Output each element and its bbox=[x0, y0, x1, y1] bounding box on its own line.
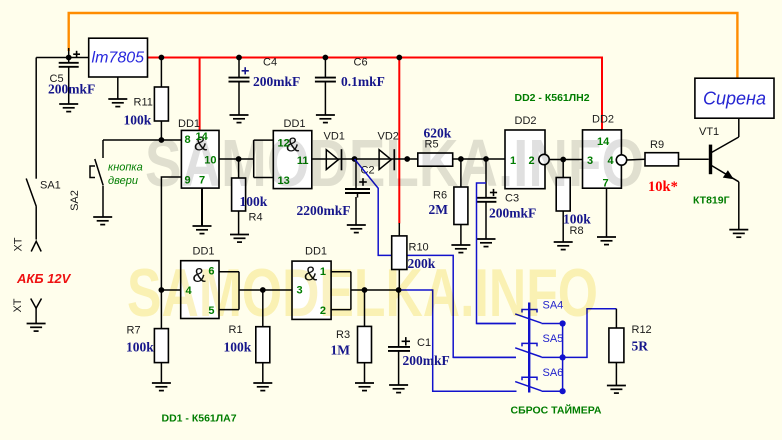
value R3 1M bbox=[331, 343, 351, 358]
regulator U1 lm7805 box bbox=[89, 38, 148, 77]
switch SA5 reset button bbox=[453, 343, 562, 357]
wire SA2 row to DD1 pin8 bbox=[103, 139, 181, 141]
wire regulator ground lead bbox=[117, 77, 119, 99]
label SA2 bbox=[69, 190, 81, 211]
svg-text:VT1: VT1 bbox=[699, 126, 719, 138]
battery plus polarity mark bbox=[73, 51, 80, 58]
label C3 bbox=[505, 193, 519, 205]
gate DD1.1 box bbox=[181, 130, 219, 188]
pin 1 bbox=[510, 155, 516, 167]
value C1 200mkF bbox=[403, 353, 450, 368]
capacitor C6 bbox=[315, 58, 336, 116]
resistor R5 bbox=[407, 153, 505, 166]
label C6 bbox=[354, 57, 368, 69]
label VD2 bbox=[378, 131, 399, 143]
label SA6 bbox=[543, 367, 564, 379]
wire blue timer node to SA4 bbox=[477, 183, 516, 324]
label C1 bbox=[417, 337, 431, 349]
svg-text:2M: 2M bbox=[429, 202, 449, 217]
capacitor C5 bbox=[59, 58, 79, 105]
ground C5 bbox=[59, 104, 78, 112]
node C3 junction bbox=[483, 156, 489, 162]
wire node to gate4 input pin3 bbox=[263, 289, 292, 291]
connector XT lower pin bbox=[31, 299, 42, 324]
svg-text:SA1: SA1 bbox=[40, 180, 61, 192]
value R5 620k bbox=[424, 126, 452, 141]
value R12 5R bbox=[632, 339, 649, 354]
label VT1 bbox=[699, 126, 719, 138]
label R4 bbox=[249, 211, 263, 223]
node SA5 contact bbox=[560, 354, 566, 360]
wire orange +12V top rail bbox=[69, 13, 738, 79]
ground C3 bbox=[477, 239, 496, 247]
svg-text:СБРОС ТАЙМЕРА: СБРОС ТАЙМЕРА bbox=[511, 404, 602, 417]
value R1 100k bbox=[224, 340, 252, 355]
node R8 junction bbox=[560, 157, 566, 163]
node rail junction C4 bbox=[236, 55, 242, 61]
svg-text:R10: R10 bbox=[409, 242, 429, 254]
value R10 200k bbox=[408, 256, 436, 271]
svg-text:200mkF: 200mkF bbox=[253, 74, 300, 89]
label DD2 gate2 bbox=[592, 114, 614, 126]
ground VT1 emitter bbox=[729, 230, 748, 238]
svg-text:R9: R9 bbox=[650, 139, 664, 151]
value R9 10k* bbox=[648, 179, 678, 195]
label R8 bbox=[570, 225, 584, 237]
ground battery negative bbox=[27, 324, 46, 332]
svg-text:200mkF: 200mkF bbox=[48, 82, 95, 97]
label SA1 bbox=[40, 180, 61, 192]
node latch left junction bbox=[159, 287, 165, 293]
label DD1 gate3 bbox=[193, 245, 215, 257]
wire latch node to gate3 pin4 bbox=[161, 289, 180, 291]
svg-text:C1: C1 bbox=[417, 337, 431, 349]
svg-text:АКБ 12V: АКБ 12V bbox=[16, 271, 72, 286]
resistor R9 bbox=[645, 153, 709, 166]
switch SA1 bbox=[26, 58, 36, 240]
svg-text:10k*: 10k* bbox=[648, 179, 678, 195]
node battery + junction bbox=[66, 55, 72, 61]
label R1 bbox=[229, 324, 243, 336]
wire DD2.2 output to R9 bbox=[627, 158, 645, 161]
label R9 bbox=[650, 139, 664, 151]
ground C2 bbox=[347, 225, 366, 233]
value C5 200mkF bbox=[48, 82, 95, 97]
label Сирена bbox=[703, 89, 766, 109]
C4 plus mark bbox=[242, 67, 249, 74]
label lm7805 bbox=[92, 50, 145, 67]
label XT upper bbox=[13, 237, 25, 251]
svg-text:КТ819Г: КТ819Г bbox=[693, 195, 730, 207]
svg-text:SA2: SA2 bbox=[69, 190, 81, 211]
gate DD1.2 ampersand bbox=[286, 135, 300, 157]
node gate1 output R4 junction bbox=[236, 156, 242, 162]
svg-text:R4: R4 bbox=[249, 211, 263, 223]
wire gate2 output to VD1 bbox=[312, 158, 327, 160]
value R7 100k bbox=[126, 340, 154, 355]
svg-text:кнопка: кнопка bbox=[108, 162, 143, 174]
label АКБ 12V battery bbox=[16, 271, 72, 286]
svg-text:100k: 100k bbox=[126, 340, 154, 355]
label R3 bbox=[336, 329, 350, 341]
svg-text:2200mkF: 2200mkF bbox=[297, 203, 351, 218]
label R5 bbox=[425, 139, 439, 151]
ground R3 bbox=[355, 383, 374, 391]
label DD2 - К561ЛН2 bbox=[515, 92, 590, 104]
svg-text:lm7805: lm7805 bbox=[92, 50, 145, 67]
gate DD1.1 ampersand bbox=[194, 134, 208, 156]
label C4 bbox=[263, 57, 277, 69]
resistor R1 bbox=[256, 290, 270, 383]
value C2 2200mkF bbox=[297, 203, 351, 218]
pin 2 bbox=[320, 305, 326, 317]
svg-text:SAMODELKA.INFO: SAMODELKA.INFO bbox=[127, 255, 598, 331]
pin 14 bbox=[597, 136, 610, 148]
svg-text:DD2 - К561ЛН2: DD2 - К561ЛН2 bbox=[515, 92, 590, 104]
node SA4 contact bbox=[560, 320, 566, 326]
wire DD2.2 ground lead bbox=[606, 188, 608, 237]
svg-text:SA6: SA6 bbox=[543, 367, 564, 379]
node R1 junction bbox=[260, 287, 266, 293]
ground R8 bbox=[554, 242, 573, 250]
value C4 200mkF bbox=[253, 74, 300, 89]
svg-text:100k: 100k bbox=[224, 340, 252, 355]
label C5 bbox=[50, 73, 64, 85]
resistor R10 bbox=[392, 223, 407, 290]
ground DD1 gate1 bbox=[193, 226, 212, 234]
svg-text:0.1mkF: 0.1mkF bbox=[341, 74, 385, 89]
node R5-R6 junction bbox=[458, 156, 464, 162]
svg-text:XT: XT bbox=[13, 237, 25, 251]
ground DD2.2 bbox=[597, 237, 616, 245]
capacitor C2 bbox=[345, 159, 370, 225]
node SA6 contact bbox=[560, 388, 566, 394]
wire DD1 pin9 feedback from latch output bbox=[161, 177, 181, 290]
svg-text:200mkF: 200mkF bbox=[403, 353, 450, 368]
ground C1 bbox=[389, 385, 408, 393]
wire node to VD2 bbox=[355, 158, 380, 160]
diode VD1 bbox=[326, 149, 354, 170]
label DD1 gate1 bbox=[178, 118, 200, 130]
gate DD1.3 ampersand bbox=[193, 265, 207, 287]
resistor R12 bbox=[609, 309, 624, 386]
node rail junction R11 bbox=[159, 55, 165, 61]
node R3 junction bbox=[362, 287, 368, 293]
node rail junction C6 bbox=[323, 55, 329, 61]
label R6 bbox=[433, 190, 447, 202]
ground R12 bbox=[607, 386, 626, 394]
resistor R8 bbox=[556, 160, 570, 243]
wire DD1 pin7 ground lead bbox=[201, 188, 203, 226]
svg-text:5R: 5R bbox=[632, 339, 649, 354]
pin 9 bbox=[185, 175, 191, 187]
node VD1-VD2 C2 junction bbox=[352, 156, 358, 162]
ground SA2 bbox=[93, 217, 112, 225]
pin 3 bbox=[587, 155, 593, 167]
node rail junction R10 drop bbox=[396, 55, 402, 61]
transistor VT1 bbox=[711, 119, 739, 230]
pin 7 bbox=[199, 175, 205, 187]
svg-text:Сирена: Сирена bbox=[703, 89, 766, 109]
value R4 100k bbox=[240, 194, 268, 209]
resistor R7 bbox=[154, 290, 168, 383]
resistor R4 bbox=[232, 159, 246, 235]
pin 12 bbox=[278, 138, 290, 150]
switch SA4 reset button bbox=[477, 310, 563, 324]
wire SA bus vertical bbox=[562, 324, 564, 392]
wire blue timing node to SA6 bbox=[399, 290, 517, 391]
label DD2 gate1 bbox=[515, 115, 537, 127]
ground R7 bbox=[152, 383, 171, 391]
value C6 0.1mkF bbox=[341, 74, 385, 89]
wire blue C2 node to SA5 bbox=[355, 159, 517, 357]
label VD1 bbox=[324, 131, 345, 143]
pin 13 bbox=[278, 175, 290, 187]
label DD1 gate2 bbox=[284, 118, 306, 130]
value R6 2M bbox=[429, 202, 449, 217]
gate DD2.1 box bbox=[505, 130, 545, 189]
pin 7 bbox=[603, 178, 609, 190]
label R7 bbox=[127, 325, 141, 337]
value R8 100k bbox=[563, 212, 591, 227]
svg-text:R8: R8 bbox=[570, 225, 584, 237]
wire DD2.1 output to DD2.2 bbox=[549, 159, 582, 161]
gate DD1.2 box bbox=[273, 131, 312, 189]
capacitor C3 bbox=[476, 159, 496, 239]
label кнопка двери bbox=[108, 162, 143, 188]
wire SA common actuator bar bbox=[528, 303, 530, 393]
svg-text:двери: двери bbox=[108, 175, 138, 187]
gate DD2.2 box bbox=[583, 130, 622, 188]
C2 plus mark bbox=[359, 178, 367, 186]
ground C6 bbox=[316, 115, 335, 123]
ground C4 bbox=[230, 115, 249, 123]
ground R6 bbox=[451, 245, 470, 253]
label SA4 bbox=[543, 299, 564, 311]
wire +5V red rail from regulator output bbox=[148, 58, 603, 130]
C3 plus mark bbox=[490, 189, 497, 196]
svg-text:SA5: SA5 bbox=[543, 333, 564, 345]
label DD1 gate4 bbox=[305, 245, 327, 257]
resistor R11 bbox=[154, 58, 168, 141]
ground regulator bbox=[108, 99, 127, 107]
svg-text:DD1 - К561ЛА7: DD1 - К561ЛА7 bbox=[162, 413, 237, 425]
svg-text:C6: C6 bbox=[354, 57, 368, 69]
gate DD1.4 ampersand bbox=[304, 264, 318, 286]
pin 8 bbox=[185, 134, 191, 146]
C1 plus mark bbox=[402, 337, 410, 345]
label КТ819Г bbox=[693, 195, 730, 207]
wire gate4 inputs bracket bbox=[331, 272, 399, 310]
value C3 200mkF bbox=[489, 206, 536, 221]
svg-text:R11: R11 bbox=[134, 97, 153, 109]
label XT lower bbox=[12, 298, 24, 312]
pin 4 bbox=[608, 155, 615, 167]
gate DD1.3 box bbox=[181, 261, 219, 319]
pin 4 bbox=[186, 285, 193, 297]
pin 11 bbox=[297, 155, 309, 167]
gate DD1.4 box bbox=[292, 261, 331, 319]
pin 5 bbox=[208, 305, 214, 317]
wire battery input node to regulator bbox=[36, 48, 89, 58]
diode VD2 bbox=[379, 149, 407, 170]
pin 6 bbox=[208, 266, 214, 278]
capacitor C4 bbox=[229, 58, 250, 116]
pin 14 bbox=[196, 131, 209, 143]
pin 2 bbox=[529, 155, 535, 167]
ground R4 bbox=[230, 235, 249, 243]
svg-text:200mkF: 200mkF bbox=[489, 206, 536, 221]
label СБРОС ТАЙМЕРА bbox=[511, 404, 602, 417]
label SA5 bbox=[543, 333, 564, 345]
pin 1 bbox=[320, 266, 326, 278]
pin 3 bbox=[297, 285, 303, 297]
value R11 100k bbox=[124, 113, 152, 128]
label R10 bbox=[409, 242, 429, 254]
connector XT upper pin bbox=[31, 241, 41, 251]
svg-text:XT: XT bbox=[12, 298, 24, 312]
label DD1 - К561ЛА7 bbox=[162, 413, 237, 425]
wire red drop to R10 bbox=[398, 58, 400, 224]
wire gate1 output to gate2 inputs bbox=[219, 140, 273, 177]
inverter bubble DD2.2 bbox=[616, 155, 626, 165]
label R12 bbox=[632, 324, 652, 336]
node R11 to DD1.8 bbox=[159, 137, 165, 143]
wire red drop to DD1 pin14 bbox=[199, 58, 201, 131]
inverter bubble DD2.1 bbox=[539, 154, 549, 164]
resistor R3 bbox=[358, 290, 372, 383]
svg-text:DD2: DD2 bbox=[592, 114, 614, 126]
ground R1 bbox=[253, 383, 272, 391]
svg-text:1M: 1M bbox=[331, 343, 351, 358]
wire SA5 node to R12 bbox=[563, 309, 617, 358]
wire gate3 inputs bracket bbox=[219, 272, 263, 310]
switch SA2 door button bbox=[90, 140, 103, 217]
node R10-C1 junction bbox=[396, 287, 402, 293]
svg-text:SAMODELKA.INFO: SAMODELKA.INFO bbox=[145, 126, 644, 201]
switch SA6 reset button bbox=[433, 377, 563, 391]
label C2 bbox=[361, 165, 375, 177]
resistor R6 bbox=[454, 159, 468, 245]
pin 10 bbox=[204, 155, 216, 167]
label R11 bbox=[134, 97, 153, 109]
svg-text:C4: C4 bbox=[263, 57, 277, 69]
capacitor C1 bbox=[388, 290, 410, 385]
node after VD2 bbox=[404, 156, 410, 162]
svg-text:R12: R12 bbox=[632, 324, 652, 336]
siren box bbox=[695, 78, 774, 118]
